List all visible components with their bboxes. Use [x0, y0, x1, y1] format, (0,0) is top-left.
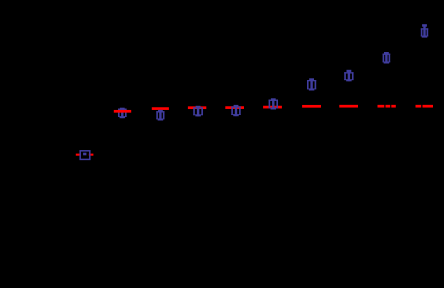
wire input stub — [76, 154, 81, 156]
wire net M3 gate rail segment — [188, 106, 206, 109]
wire net M4 gate rail segment — [225, 106, 244, 109]
wire net M5 gate rail segment — [263, 106, 282, 109]
transistor M2 — [156, 110, 164, 121]
transistor M1 — [118, 108, 127, 119]
wire net M2 gate rail segment — [152, 107, 169, 110]
transistor M9 — [421, 24, 428, 37]
wire net M8 gate rail segment — [391, 105, 396, 108]
transistor M7 — [344, 70, 353, 82]
transistor M8 — [383, 52, 391, 64]
wire net M1 gate rail segment — [114, 110, 131, 113]
wire net M6 gate rail segment — [302, 105, 321, 108]
wire net M8 gate rail segment — [378, 105, 385, 108]
instance box X1 — [80, 151, 90, 160]
wire net M9 gate rail segment — [416, 105, 422, 108]
wire net M8 gate rail segment — [386, 105, 391, 108]
wire output stub — [89, 154, 94, 156]
transistor M5 — [269, 98, 278, 109]
wire net M9 gate rail segment — [423, 105, 434, 108]
transistor M3 — [193, 106, 203, 117]
transistor M6 — [307, 78, 316, 90]
transistor M4 — [231, 105, 240, 116]
wire net M7 gate rail segment — [339, 105, 358, 108]
